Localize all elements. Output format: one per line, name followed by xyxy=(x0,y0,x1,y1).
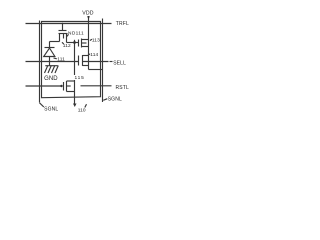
node ND111 wire 112 to 113 gate xyxy=(67,42,79,44)
svg-text:SGNL: SGNL xyxy=(44,107,58,113)
svg-text:111: 111 xyxy=(57,57,65,63)
ground bar xyxy=(45,65,57,67)
right SGNL vertical line xyxy=(102,19,104,103)
node ND111 vertical wire lower xyxy=(74,80,76,104)
junction dot TRFL gate xyxy=(62,23,64,25)
label leader ND111 xyxy=(67,35,69,37)
transistor 115 drain stub xyxy=(67,80,75,82)
node ND111 dot upper stub xyxy=(74,40,76,43)
SELL row line left xyxy=(26,61,79,63)
svg-text:GND: GND xyxy=(44,76,58,82)
svg-text:RSTL: RSTL xyxy=(116,85,129,91)
junction blob 115 gate xyxy=(60,85,62,87)
svg-text:TRFL: TRFL xyxy=(116,21,129,27)
transistor 112 source stub xyxy=(59,34,61,42)
node ND111 vertical wire upper xyxy=(74,43,76,76)
transistor 112 gate lead xyxy=(62,24,64,31)
transistor 115 source stub xyxy=(67,91,75,93)
transistor 115 channel xyxy=(66,81,68,92)
RSTL row line left xyxy=(26,85,63,87)
output arrowhead xyxy=(73,104,77,108)
svg-text:112: 112 xyxy=(63,43,71,49)
svg-text:110: 110 xyxy=(78,108,86,114)
transistor 114 source stub xyxy=(83,65,89,67)
ground hatch xyxy=(45,66,59,74)
SELL row line right xyxy=(83,61,109,63)
VDD arrowhead xyxy=(87,16,90,19)
transistor 115 body stub xyxy=(67,85,71,87)
transistor 114 channel xyxy=(82,55,84,66)
label leader SELL xyxy=(110,61,113,63)
TRFL row line xyxy=(26,23,112,25)
label leader 113 xyxy=(90,39,92,40)
transistor 112 channel xyxy=(59,33,68,35)
RSTL row line right xyxy=(81,85,112,87)
pixel box 110 xyxy=(42,22,101,98)
VDD supply lead xyxy=(88,16,90,70)
transistor 113 gate bar xyxy=(78,40,80,47)
svg-text:114: 114 xyxy=(90,52,98,58)
svg-text:113: 113 xyxy=(92,38,100,44)
svg-text:ND111: ND111 xyxy=(68,31,84,37)
transistor 112 drain stub xyxy=(66,34,68,43)
transistor 114 gate bar xyxy=(78,56,80,66)
transistor 113 source stub xyxy=(82,46,89,48)
junction dot node ND111 xyxy=(73,41,76,44)
photodiode 111 triangle xyxy=(44,48,55,57)
label leader 112 xyxy=(62,42,64,44)
left SGNL vertical line xyxy=(39,21,41,103)
label leader SGNL bottom-right xyxy=(103,99,107,101)
svg-text:SGNL: SGNL xyxy=(108,97,122,103)
photodiode 111 cathode bar xyxy=(45,47,55,49)
transistor 113 channel xyxy=(81,39,83,48)
transistor 112 body stub xyxy=(63,34,65,39)
photodiode 111 anode lead xyxy=(49,57,51,66)
transistor 115 gate bar xyxy=(63,82,65,91)
svg-text:SELL: SELL xyxy=(113,60,126,66)
wire select source to SGNL xyxy=(89,69,103,71)
label leader 111 xyxy=(54,57,57,60)
transistor 112 gate bar xyxy=(59,30,67,32)
transistor 114 drain stub xyxy=(83,55,89,57)
label leader 114 xyxy=(88,54,90,55)
label leader 110 xyxy=(85,104,87,107)
transistor 113 body stub xyxy=(82,42,87,44)
svg-text:VDD: VDD xyxy=(82,11,94,17)
node wire PD to 112 xyxy=(50,41,60,43)
photodiode 111 cathode lead xyxy=(49,42,51,48)
transistor 113 drain stub xyxy=(82,39,89,41)
svg-text:115: 115 xyxy=(75,75,85,81)
label leader SGNL bottom-left xyxy=(40,103,44,107)
